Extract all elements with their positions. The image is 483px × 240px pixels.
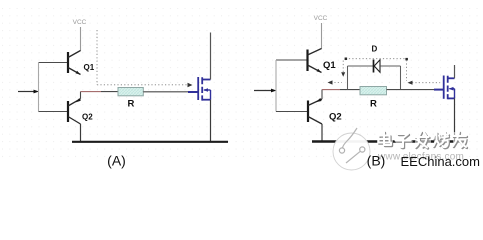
wire Q2 top to node (B) <box>321 90 323 100</box>
drain stub (A) <box>202 79 210 81</box>
svg-text:D: D <box>372 45 378 54</box>
transistor Q2 (A) base bar <box>67 101 69 122</box>
transistor Q2 (B) base bar <box>307 101 309 123</box>
body stub with arrow (A) <box>204 89 211 91</box>
transistor Q1 (A) emitter with NPN arrow <box>68 68 81 75</box>
svg-text:Q2: Q2 <box>329 111 342 122</box>
diode branch top wire right of D (B) <box>380 65 400 67</box>
base junction vertical (B) <box>275 60 277 112</box>
ground line (A) <box>72 141 228 143</box>
wire R to gate (A) <box>143 91 188 93</box>
transistor Q2 (A) collector (bottom) <box>68 117 81 125</box>
diode D triangle (pointing left) <box>374 60 380 72</box>
gate bar (B) <box>443 76 445 99</box>
transistor Q2 (B) collector (bottom) <box>308 117 322 125</box>
char 3 (fa) <box>415 132 431 150</box>
char 5 (you) <box>453 132 468 150</box>
transistor Q2 (A) base wire <box>39 111 68 113</box>
source wire down (B) <box>454 98 456 141</box>
ground line (B) <box>312 140 466 142</box>
base junction vertical (A) <box>38 63 40 112</box>
diode branch left vertical (B) <box>347 66 349 90</box>
wire Q2 top to node (A) <box>80 92 82 99</box>
node wire to R (B), reddish then dark <box>322 89 340 91</box>
dashed right horizontal with left arrow (B) <box>412 82 440 84</box>
body stub with arrow (B) <box>450 88 455 90</box>
watermark chinese characters (embossed outline style) <box>377 132 468 150</box>
svg-text:VCC: VCC <box>73 19 87 26</box>
wire R to gate (B) <box>387 89 435 91</box>
diode branch top wire left of D (B) <box>348 65 374 67</box>
VCC wire (B) <box>321 23 323 49</box>
source stub (B) <box>448 97 455 99</box>
diode D cathode bar <box>373 60 375 73</box>
diode branch right vertical (B) <box>400 66 402 90</box>
arrowhead of dashed charge path (A) <box>188 83 193 87</box>
input wire with arrow (A) <box>18 91 34 93</box>
dashed right vertical (B) <box>406 60 408 81</box>
dashed left horizontal with left arrow (B) <box>331 82 342 84</box>
input wire with arrow (B) <box>254 90 271 92</box>
svg-text:Q1: Q1 <box>84 63 95 72</box>
gate bar (A) <box>197 77 199 100</box>
svg-text:(B): (B) <box>367 152 386 168</box>
transistor Q1 (B) base wire <box>276 59 307 61</box>
drain wire up (B) <box>454 65 456 78</box>
drain wire up (A) <box>210 33 212 80</box>
char 4 (shao) <box>434 132 451 150</box>
dashed discharge-path annotation (B): top line with corner dots <box>346 58 407 60</box>
svg-text:EEChina.com: EEChina.com <box>401 154 480 169</box>
dashed left vertical with down arrow (B) <box>342 61 344 73</box>
drain stub (B) <box>448 77 455 79</box>
dashed charge-path annotation (A) <box>97 30 188 85</box>
body-source vertical (A) <box>210 90 212 100</box>
svg-text:VCC: VCC <box>314 15 328 22</box>
transistor Q1 (A) collector <box>68 51 81 58</box>
svg-text:R: R <box>128 99 135 110</box>
transistor Q2 (B) emitter (top, PNP arrow) <box>308 99 322 106</box>
svg-text:Q1: Q1 <box>323 60 336 71</box>
transistor Q1 (A) base bar <box>67 52 69 73</box>
svg-text:R: R <box>370 99 377 110</box>
transistor Q1 (B) base bar <box>306 50 308 72</box>
transistor Q2 (B) base wire <box>276 111 307 113</box>
body-source vertical (B) <box>454 89 456 99</box>
node wire to R (A), reddish then dark <box>81 91 102 93</box>
transistor Q1 (B) collector <box>308 49 322 56</box>
wire Q2 bottom to ground (A) <box>80 124 82 142</box>
channel segments (A) <box>201 77 203 100</box>
transistor Q1 (B) emitter with NPN arrow <box>308 65 322 73</box>
channel segments (B) <box>447 76 449 100</box>
VCC wire (A) <box>80 27 82 51</box>
watermark logo circle <box>333 128 370 170</box>
transistor Q1 (A) base wire <box>39 62 68 64</box>
transistor Q2 (A) emitter (top, PNP arrow toward bar) <box>68 99 81 106</box>
wire Q2 bottom to ground (B) <box>321 124 323 142</box>
svg-text:(A): (A) <box>107 152 126 168</box>
char 1 (dian) <box>377 132 393 150</box>
gate wire (B) <box>434 89 443 91</box>
gate wire (A) <box>188 91 198 93</box>
resistor R (B) <box>360 87 387 95</box>
svg-text:Q2: Q2 <box>82 113 93 122</box>
MOSFET M (B), N-channel <box>434 65 455 142</box>
source wire down (A) <box>210 100 212 142</box>
char 2 (zi) <box>396 132 413 150</box>
resistor R (A) <box>118 88 143 96</box>
source stub (A) <box>202 99 210 101</box>
MOSFET M (A), N-channel <box>188 33 211 142</box>
